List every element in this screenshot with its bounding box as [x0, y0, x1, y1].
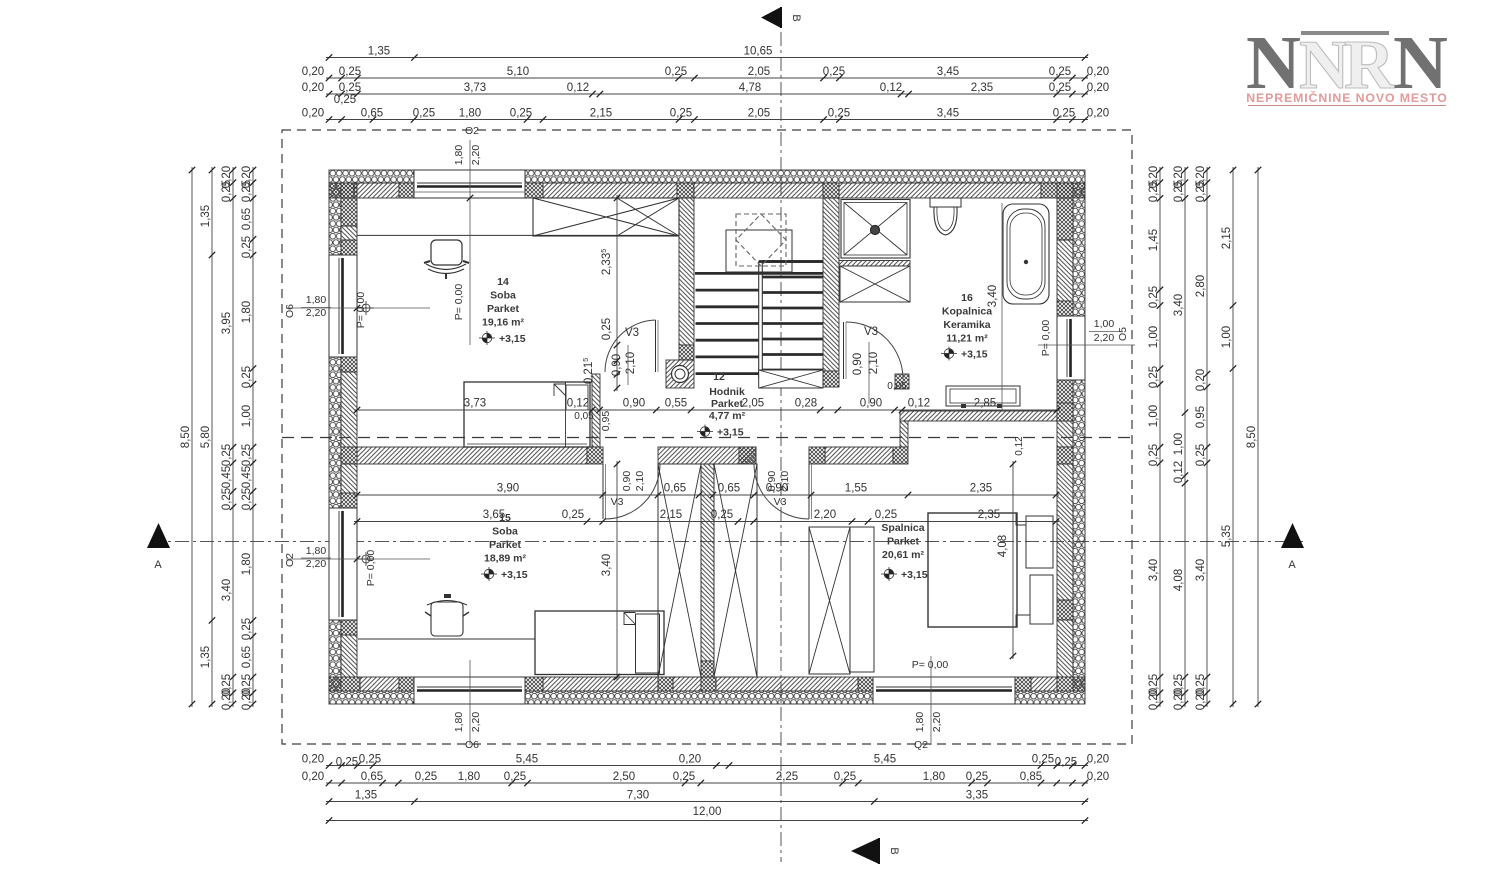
svg-text:0,90: 0,90 [611, 354, 623, 376]
svg-text:0,20: 0,20 [1087, 771, 1109, 783]
svg-text:5,35: 5,35 [1221, 525, 1233, 547]
svg-text:2,20: 2,20 [470, 712, 482, 733]
svg-text:0,12: 0,12 [567, 398, 589, 410]
svg-text:O5: O5 [1117, 327, 1129, 341]
svg-text:0,65: 0,65 [241, 646, 253, 668]
svg-text:0,28: 0,28 [795, 398, 817, 410]
svg-text:11,21 m²: 11,21 m² [946, 333, 988, 345]
svg-text:2,15: 2,15 [590, 108, 612, 120]
svg-text:5,80: 5,80 [200, 426, 212, 448]
svg-text:2,35: 2,35 [970, 483, 992, 495]
svg-text:0,25: 0,25 [665, 66, 687, 78]
svg-text:0,25: 0,25 [966, 771, 988, 783]
svg-text:1,55: 1,55 [845, 483, 867, 495]
svg-text:0,90: 0,90 [766, 471, 778, 492]
svg-text:Parket: Parket [711, 398, 744, 410]
svg-text:+3,15: +3,15 [717, 427, 744, 439]
svg-text:1,80: 1,80 [453, 145, 465, 166]
svg-text:0,55: 0,55 [665, 398, 687, 410]
svg-text:0,25: 0,25 [241, 488, 253, 510]
svg-text:5,10: 5,10 [507, 66, 529, 78]
svg-text:2,10: 2,10 [634, 471, 646, 492]
svg-text:0,12: 0,12 [1173, 461, 1185, 483]
svg-text:0,25: 0,25 [241, 236, 253, 258]
svg-text:0,20: 0,20 [302, 66, 324, 78]
svg-text:0,25: 0,25 [359, 754, 381, 766]
svg-text:12: 12 [713, 371, 725, 383]
svg-text:0,05: 0,05 [887, 381, 907, 392]
svg-text:2,20: 2,20 [1094, 332, 1115, 344]
svg-text:0,05: 0,05 [574, 411, 594, 422]
svg-text:16: 16 [961, 292, 973, 304]
svg-text:0,25: 0,25 [1148, 366, 1160, 388]
svg-text:1,80: 1,80 [923, 771, 945, 783]
svg-text:2,10: 2,10 [625, 352, 637, 374]
svg-text:0,20: 0,20 [679, 754, 701, 766]
svg-text:+3,15: +3,15 [961, 349, 988, 361]
svg-text:2,50: 2,50 [613, 771, 635, 783]
svg-text:O6: O6 [465, 739, 479, 751]
svg-text:1,35: 1,35 [355, 790, 377, 802]
svg-text:O2: O2 [284, 553, 296, 567]
svg-text:Soba: Soba [490, 290, 516, 302]
svg-text:3,40: 3,40 [601, 554, 613, 576]
svg-text:2,10: 2,10 [779, 471, 791, 492]
svg-text:1,35: 1,35 [200, 205, 212, 227]
svg-text:1,80: 1,80 [459, 108, 481, 120]
svg-text:3,40: 3,40 [1173, 294, 1185, 316]
svg-text:3,90: 3,90 [497, 483, 519, 495]
svg-text:4,78: 4,78 [739, 82, 761, 94]
svg-text:4,08: 4,08 [1173, 569, 1185, 591]
svg-text:0,20: 0,20 [241, 688, 253, 710]
svg-text:3,45: 3,45 [937, 108, 959, 120]
svg-text:0,25: 0,25 [334, 94, 356, 106]
svg-text:2,80: 2,80 [1195, 275, 1207, 297]
svg-text:2,20: 2,20 [470, 145, 482, 166]
svg-text:0,25: 0,25 [1195, 444, 1207, 466]
svg-text:0,25: 0,25 [221, 180, 233, 202]
svg-text:0,90: 0,90 [860, 398, 882, 410]
svg-text:B: B [888, 847, 900, 854]
svg-text:3,95: 3,95 [221, 312, 233, 334]
svg-text:0,20: 0,20 [1087, 108, 1109, 120]
svg-text:8,50: 8,50 [1246, 426, 1258, 448]
svg-text:0,25: 0,25 [1049, 82, 1071, 94]
svg-text:O2: O2 [465, 125, 479, 137]
svg-text:0,90: 0,90 [623, 398, 645, 410]
svg-text:P= 0,00: P= 0,00 [912, 659, 949, 671]
svg-text:+3,15: +3,15 [901, 569, 928, 581]
svg-text:0,65: 0,65 [718, 483, 740, 495]
svg-text:1,80: 1,80 [306, 545, 327, 557]
svg-text:5,45: 5,45 [874, 754, 896, 766]
svg-text:2,85: 2,85 [974, 398, 996, 410]
svg-text:2,05: 2,05 [748, 108, 770, 120]
svg-text:0,25: 0,25 [1148, 180, 1160, 202]
svg-text:Kopalnica: Kopalnica [942, 306, 992, 318]
svg-text:0,95: 0,95 [1195, 406, 1207, 428]
svg-text:1,80: 1,80 [241, 301, 253, 323]
svg-text:2,15: 2,15 [1221, 227, 1233, 249]
svg-text:0,20: 0,20 [1148, 688, 1160, 710]
svg-text:0,12: 0,12 [1014, 436, 1025, 456]
svg-text:P= 0,00: P= 0,00 [453, 284, 465, 321]
svg-text:0,20: 0,20 [302, 82, 324, 94]
svg-text:0,25: 0,25 [241, 180, 253, 202]
svg-text:0,20: 0,20 [1195, 369, 1207, 391]
svg-text:B: B [790, 14, 802, 21]
svg-text:2,35: 2,35 [978, 509, 1000, 521]
svg-text:0,12: 0,12 [880, 82, 902, 94]
svg-text:0,65: 0,65 [361, 108, 383, 120]
svg-text:NEPREMIČNINE NOVO MESTO: NEPREMIČNINE NOVO MESTO [1246, 90, 1448, 105]
svg-text:2,05: 2,05 [742, 398, 764, 410]
svg-text:P= 0,00: P= 0,00 [355, 292, 367, 329]
svg-text:1,35: 1,35 [368, 46, 390, 58]
svg-text:1,00: 1,00 [1148, 405, 1160, 427]
svg-text:0,25: 0,25 [823, 66, 845, 78]
svg-text:0,25: 0,25 [1049, 66, 1071, 78]
svg-text:0,25: 0,25 [1055, 757, 1077, 769]
svg-text:3,40: 3,40 [1148, 559, 1160, 581]
svg-text:0,45: 0,45 [221, 466, 233, 488]
svg-text:0,65: 0,65 [361, 771, 383, 783]
svg-text:0,25: 0,25 [413, 108, 435, 120]
svg-text:0,25: 0,25 [339, 82, 361, 94]
svg-text:0,20: 0,20 [1087, 754, 1109, 766]
svg-text:0,65: 0,65 [664, 483, 686, 495]
svg-text:Parket: Parket [487, 303, 520, 315]
svg-text:0,45: 0,45 [241, 466, 253, 488]
svg-text:0,90: 0,90 [621, 471, 633, 492]
svg-text:4,08: 4,08 [997, 535, 1009, 557]
svg-text:0,95: 0,95 [600, 411, 612, 432]
svg-text:4,77 m²: 4,77 m² [709, 410, 746, 422]
svg-text:1,00: 1,00 [1094, 318, 1115, 330]
svg-text:0,90: 0,90 [852, 353, 864, 375]
svg-text:Parket: Parket [887, 536, 920, 548]
svg-text:1,00: 1,00 [1173, 433, 1185, 455]
svg-text:V3: V3 [864, 326, 878, 338]
svg-text:Q2: Q2 [914, 739, 928, 751]
svg-text:0,20: 0,20 [1173, 688, 1185, 710]
svg-text:+3,15: +3,15 [499, 333, 526, 345]
svg-text:O6: O6 [284, 304, 296, 318]
svg-text:A: A [154, 559, 162, 571]
svg-text:0,25: 0,25 [241, 444, 253, 466]
svg-text:0,25: 0,25 [601, 318, 613, 340]
svg-text:2,10: 2,10 [868, 352, 880, 374]
svg-text:5,45: 5,45 [516, 754, 538, 766]
svg-text:3,40: 3,40 [1195, 559, 1207, 581]
svg-text:0,25: 0,25 [834, 771, 856, 783]
svg-text:0,20: 0,20 [1087, 66, 1109, 78]
svg-text:0,12: 0,12 [567, 82, 589, 94]
svg-text:10,65: 10,65 [744, 46, 773, 58]
svg-text:2,25: 2,25 [776, 771, 798, 783]
svg-text:2,20: 2,20 [306, 307, 327, 319]
svg-text:1,35: 1,35 [200, 646, 212, 668]
svg-text:P= 0,00: P= 0,00 [1040, 320, 1052, 357]
svg-text:0,20: 0,20 [1195, 688, 1207, 710]
svg-text:0,20: 0,20 [302, 754, 324, 766]
svg-text:Keramika: Keramika [943, 319, 990, 331]
svg-text:Spalnica: Spalnica [881, 522, 924, 534]
svg-text:7,30: 7,30 [627, 790, 649, 802]
svg-text:0,20: 0,20 [221, 688, 233, 710]
svg-text:Soba: Soba [492, 526, 518, 538]
svg-text:0,25: 0,25 [670, 108, 692, 120]
svg-text:Parket: Parket [489, 539, 522, 551]
svg-text:1,00: 1,00 [241, 405, 253, 427]
svg-text:3,35: 3,35 [966, 790, 988, 802]
svg-text:0,25: 0,25 [336, 757, 358, 769]
svg-text:1,80: 1,80 [914, 712, 926, 733]
svg-text:0,20: 0,20 [1087, 82, 1109, 94]
svg-text:2,20: 2,20 [814, 509, 836, 521]
svg-text:2,20: 2,20 [306, 558, 327, 570]
svg-text:2,05: 2,05 [748, 66, 770, 78]
svg-text:0,25: 0,25 [504, 771, 526, 783]
svg-text:V3: V3 [774, 496, 787, 508]
svg-text:1,80: 1,80 [306, 294, 327, 306]
svg-text:8,50: 8,50 [180, 426, 192, 448]
svg-text:0,25: 0,25 [828, 108, 850, 120]
svg-text:0,85: 0,85 [1020, 771, 1042, 783]
svg-text:0,20: 0,20 [302, 771, 324, 783]
svg-text:0,25: 0,25 [1032, 754, 1054, 766]
svg-text:2,20: 2,20 [931, 712, 943, 733]
svg-text:0,65: 0,65 [241, 208, 253, 230]
svg-text:2,15: 2,15 [660, 509, 682, 521]
svg-text:0,25: 0,25 [1173, 180, 1185, 202]
svg-text:18,89 m²: 18,89 m² [484, 553, 527, 565]
svg-text:1,00: 1,00 [1148, 326, 1160, 348]
svg-text:Hodnik: Hodnik [709, 386, 745, 398]
svg-text:1,45: 1,45 [1148, 229, 1160, 251]
svg-text:0,25: 0,25 [1148, 444, 1160, 466]
svg-text:0,12: 0,12 [908, 398, 930, 410]
svg-text:0,25: 0,25 [1195, 180, 1207, 202]
svg-text:0,25: 0,25 [221, 444, 233, 466]
svg-text:1,80: 1,80 [241, 553, 253, 575]
svg-text:3,40: 3,40 [221, 579, 233, 601]
svg-text:0,25: 0,25 [241, 618, 253, 640]
svg-text:0,25: 0,25 [415, 771, 437, 783]
svg-text:0,25: 0,25 [510, 108, 532, 120]
svg-text:3,73: 3,73 [464, 82, 486, 94]
svg-text:1,80: 1,80 [453, 712, 465, 733]
svg-text:1,00: 1,00 [1221, 326, 1233, 348]
svg-text:0,25: 0,25 [711, 509, 733, 521]
svg-text:V3: V3 [625, 327, 639, 339]
svg-text:+3,15: +3,15 [501, 569, 528, 581]
svg-text:12,00: 12,00 [693, 806, 722, 818]
svg-text:3,73: 3,73 [464, 398, 486, 410]
svg-text:0,25: 0,25 [1148, 286, 1160, 308]
svg-text:0,20: 0,20 [302, 108, 324, 120]
svg-text:3,45: 3,45 [937, 66, 959, 78]
svg-text:V3: V3 [611, 496, 624, 508]
svg-text:3,40: 3,40 [987, 285, 999, 307]
svg-text:0,25: 0,25 [221, 488, 233, 510]
svg-text:0,25: 0,25 [875, 509, 897, 521]
svg-text:19,16 m²: 19,16 m² [482, 317, 525, 329]
svg-text:20,61 m²: 20,61 m² [882, 549, 925, 561]
svg-text:0,25: 0,25 [339, 66, 361, 78]
svg-text:0,25: 0,25 [562, 509, 584, 521]
svg-text:0,25: 0,25 [241, 366, 253, 388]
svg-text:2,35: 2,35 [971, 82, 993, 94]
svg-text:3,65: 3,65 [483, 509, 505, 521]
svg-text:0,25: 0,25 [673, 771, 695, 783]
svg-text:1,80: 1,80 [458, 771, 480, 783]
svg-text:P= 0,00: P= 0,00 [365, 550, 377, 587]
svg-text:14: 14 [497, 276, 509, 288]
svg-text:A: A [1288, 559, 1296, 571]
svg-text:0,25: 0,25 [1053, 108, 1075, 120]
